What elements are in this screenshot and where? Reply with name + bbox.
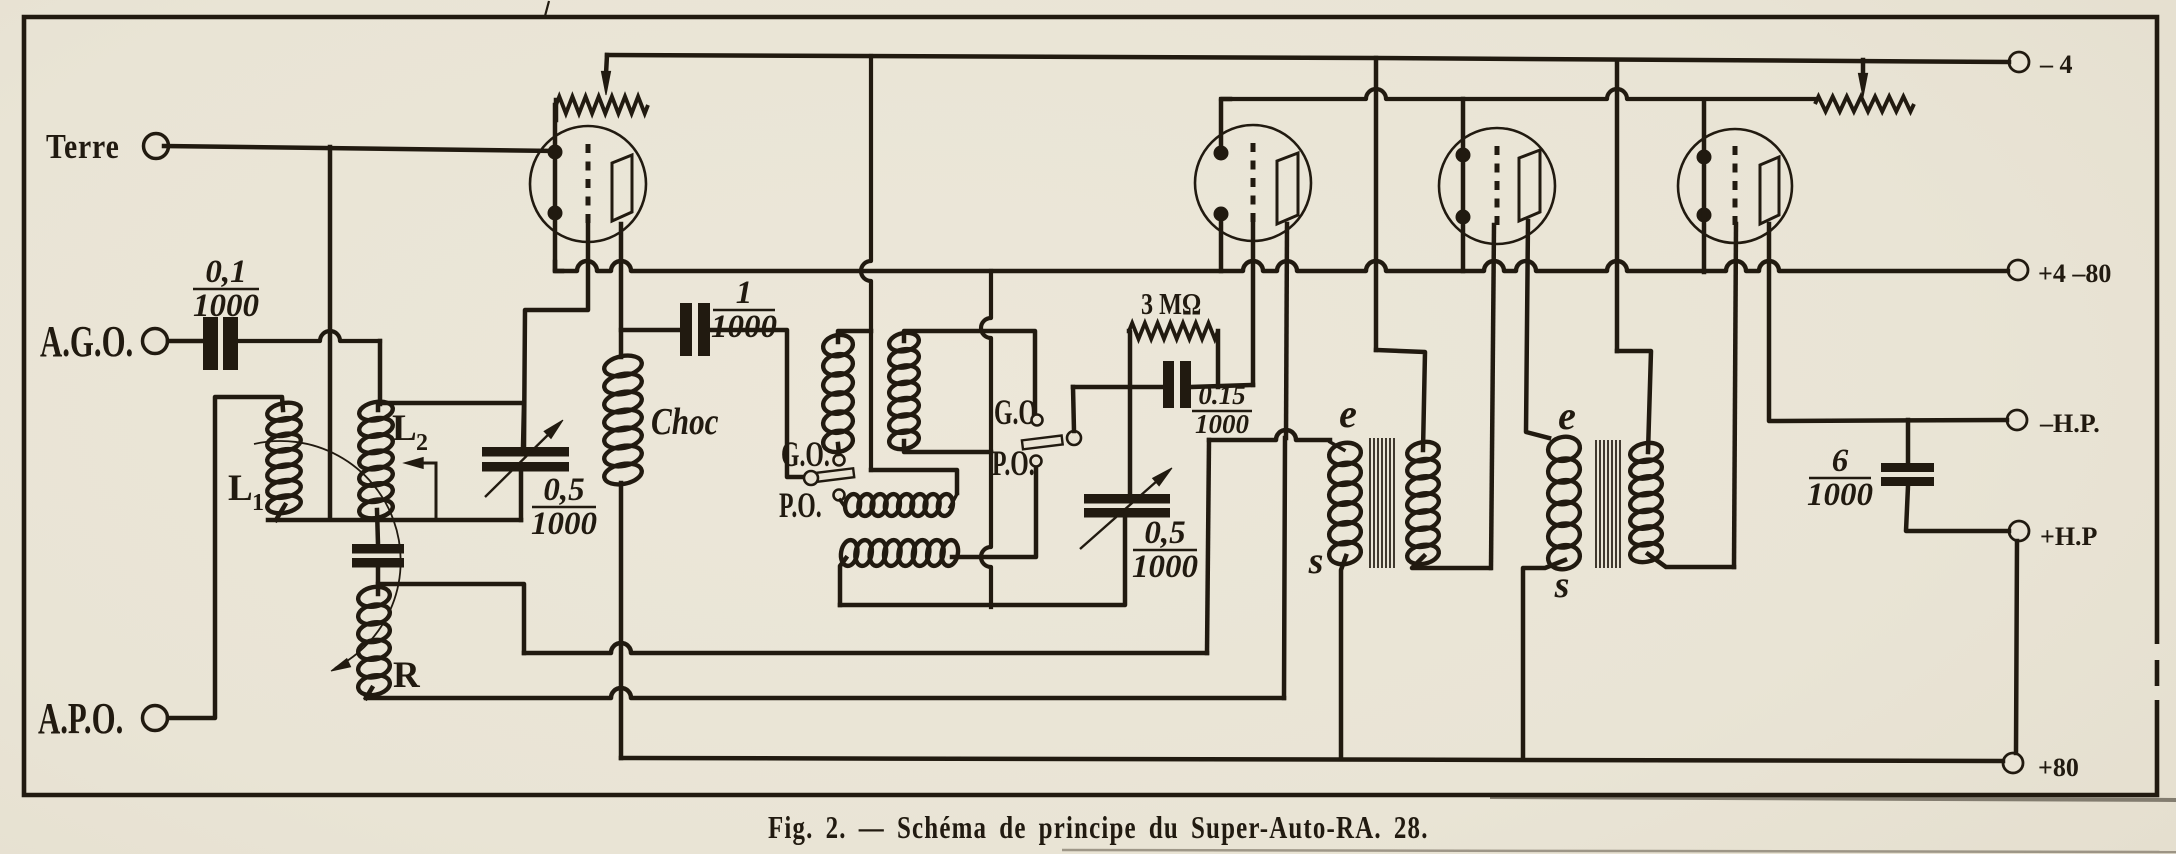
wire V3 grid lead (1491, 225, 1494, 568)
svg-text:1000: 1000 (711, 309, 777, 345)
svg-text:+H.P: +H.P (2040, 522, 2098, 551)
arrowhead pot1 wiper (601, 71, 610, 95)
svg-text:–H.P.: –H.P. (2039, 409, 2100, 438)
wire spiral C left lead (840, 558, 846, 605)
wire L2 bottom lead (377, 510, 378, 544)
svg-text:L: L (228, 468, 253, 509)
wire -4 top rail (607, 55, 2009, 62)
caption (768, 810, 1429, 846)
svg-text:A.P.O.: A.P.O. (38, 695, 123, 744)
label P.O. switch1 (779, 485, 822, 525)
label CV1 value 0,5/1000 (531, 472, 597, 542)
wire switch2 pivot riser (1073, 387, 1074, 431)
wire osc-B top tee (838, 331, 871, 342)
inductor L1 (266, 400, 303, 516)
svg-text:Terre: Terre (46, 128, 120, 167)
svg-text:+4 –80: +4 –80 (2038, 259, 2111, 288)
svg-text:1000: 1000 (1195, 409, 1250, 439)
label -4 (2039, 50, 2073, 79)
contact P.O.1 (834, 490, 845, 501)
svg-text:0,5: 0,5 (543, 472, 584, 508)
label A.G.O. (40, 318, 133, 367)
label A.P.O. (38, 695, 123, 744)
terminal +4-80 (2008, 260, 2028, 280)
label C4 value 0.15/1000 (1192, 380, 1252, 439)
inductor spiral A (843, 493, 954, 517)
wire A.P.O. riser (168, 397, 283, 718)
wire C2 to R junction (376, 567, 381, 594)
wire V2 anode lead (1286, 224, 1287, 438)
switch2 pivot (1067, 431, 1081, 445)
switch1 blade (815, 468, 854, 482)
wire spiral C right lead (952, 467, 1036, 557)
resistor 3MOhm (1129, 323, 1218, 339)
wire +H.P. to +80 (2016, 541, 2017, 753)
inductor T1 primary (1327, 440, 1363, 567)
wire T2 secondary bottom to V4 grid (1648, 554, 1734, 567)
wire rail3 +80 (621, 758, 2003, 761)
capacitor C2 plates (352, 544, 404, 568)
wire osc-D bottom tee (904, 441, 991, 452)
svg-text:1: 1 (252, 490, 264, 516)
terminal Terre (144, 134, 169, 159)
svg-text:1000: 1000 (1132, 549, 1198, 585)
contact G.O.2 (1032, 415, 1043, 426)
inductor L2 (358, 399, 395, 521)
svg-text:P.O.: P.O. (992, 443, 1035, 483)
wire V1 grid lead (524, 222, 588, 447)
coupling arc with arrow (254, 441, 401, 671)
label G.O. switch2 (994, 392, 1043, 432)
inductor osc-D (888, 330, 921, 451)
pen tick top border (545, 1, 549, 16)
wire 3MOhm right lead (1216, 331, 1221, 387)
arrow CV2 variable (1080, 468, 1172, 549)
label G.O. switch1 (781, 434, 830, 474)
wire V3 anode lead (1526, 221, 1549, 438)
svg-text:1000: 1000 (1807, 477, 1873, 513)
capacitor C3 plates (680, 303, 710, 356)
wire gridleak bottom (1073, 385, 1253, 387)
svg-text:2: 2 (416, 430, 428, 456)
wire Terre drop to tank bus (328, 147, 333, 519)
wire pot1 wiper drop (606, 55, 607, 74)
terminal +80 (2003, 753, 2023, 773)
wire 3MOhm left lead (1129, 331, 1130, 494)
wire T2 primary bottom to rail3 (1523, 560, 1565, 759)
inductor T2 primary (1546, 434, 1582, 572)
wire A.G.O. to capacitor (168, 339, 203, 344)
wire T1 primary bottom to rail3 (1341, 556, 1346, 758)
contact P.O.2 (1031, 456, 1042, 467)
svg-text:s: s (1308, 540, 1324, 582)
terminal -4 (2009, 52, 2029, 72)
svg-text:0.15: 0.15 (1198, 380, 1245, 410)
label R (393, 655, 421, 696)
terminal A.G.O. (143, 329, 168, 354)
inductor T1 secondary (1406, 439, 1441, 566)
wire L2 top tee (378, 403, 524, 410)
switch2 blade (1022, 435, 1063, 449)
tube V2 envelope (1195, 125, 1311, 241)
tube V3 envelope (1439, 128, 1555, 244)
svg-text:Fig. 2. — Schéma de principe d: Fig. 2. — Schéma de principe du Super-Au… (768, 810, 1429, 846)
wire osc-D top to G.O.2 (904, 331, 1035, 413)
tube V1 envelope (530, 126, 646, 242)
wire rail1 R-top to T1 primary (378, 430, 1330, 653)
svg-text:1000: 1000 (531, 506, 597, 542)
filament rail (1221, 89, 1815, 99)
inductor spiral C (839, 539, 960, 567)
wire Choc bottom to rail3 (619, 483, 624, 758)
svg-text:+80: +80 (2038, 753, 2079, 782)
svg-text:A.G.O.: A.G.O. (40, 318, 133, 367)
capacitor CV1 plates (482, 447, 569, 472)
capacitor C1 0,1/1000 plates (203, 317, 238, 370)
wire T1 secondary top riser (1376, 350, 1425, 450)
wire V1 anode lead (619, 224, 624, 357)
wire C5 top lead (1906, 420, 1911, 464)
scan smudge bottom (1062, 797, 2176, 852)
label +80 (2038, 753, 2079, 782)
arrow CV1 variable (485, 420, 563, 497)
wire V1 filament to bus corner (555, 262, 562, 271)
svg-text:0,5: 0,5 (1144, 515, 1185, 551)
inductor osc-B (821, 332, 854, 454)
svg-text:R: R (393, 655, 421, 696)
switch1 pivot (804, 471, 818, 485)
label T2 e (1558, 393, 1576, 438)
label +H.P (2040, 522, 2098, 551)
svg-text:Choc: Choc (651, 400, 719, 443)
wire T2 secondary top riser (1617, 351, 1651, 452)
tube V4 envelope (1678, 129, 1792, 243)
wire V4 anode lead (1769, 224, 2007, 421)
wire rail2 R-bottom to V2 anode (366, 438, 1285, 698)
svg-text:1000: 1000 (193, 288, 259, 324)
label Terre (46, 128, 120, 167)
wire tank bottom bus (268, 518, 521, 523)
label T2 s (1554, 564, 1570, 606)
wire CV1 top lead (523, 403, 524, 447)
contact G.O.1 (834, 455, 845, 466)
label T1 s (1308, 540, 1324, 582)
label 3MOhm (1141, 287, 1201, 322)
wire drop x990 (981, 271, 991, 607)
wire V1 filament (553, 105, 558, 270)
label CV2 value 0,5/1000 (1132, 515, 1198, 585)
svg-text:1: 1 (736, 275, 753, 311)
label L1 (228, 468, 264, 516)
wire V3 filament (1461, 99, 1466, 271)
label C3 value 1/1000 (711, 275, 777, 345)
label +4-80 (2038, 259, 2111, 288)
inductor Choc (602, 353, 643, 488)
label C5 value 6/1000 (1807, 443, 1873, 513)
label T1 e (1339, 391, 1357, 436)
wire C1 to L2 top (238, 331, 380, 404)
label C1 value 0,1/1000 (193, 254, 259, 324)
wire V2 grid lead (1251, 222, 1256, 385)
arrowhead pot2 wiper (1858, 73, 1867, 97)
svg-text:e: e (1558, 393, 1576, 438)
coupling tap arrow into L2 (404, 458, 436, 520)
capacitor C5 6/1000 plates (1881, 463, 1934, 486)
wire pot1 left post (554, 100, 559, 120)
svg-text:3 MΩ: 3 MΩ (1141, 287, 1201, 322)
wire C3 to switch1 pivot (709, 330, 804, 477)
wire Choc top to C3 (621, 328, 683, 333)
potentiometer pot1 (556, 97, 648, 114)
svg-text:e: e (1339, 391, 1357, 436)
label P.O. switch2 (992, 443, 1035, 483)
terminal +H.P (2009, 521, 2029, 541)
terminal -H.P. (2007, 410, 2027, 430)
wire V4 grid lead (1734, 224, 1736, 567)
potentiometer pot2 (1815, 97, 1914, 112)
wire Terre to tube1 filament (164, 146, 555, 151)
svg-text:– 4: – 4 (2039, 50, 2073, 79)
label Choc (651, 400, 719, 443)
wire rail607 (840, 518, 1125, 605)
inductor T2 secondary (1629, 440, 1664, 564)
wire CV1 bottom lead (519, 471, 524, 520)
wire L1 bottom to tank bus (276, 505, 285, 520)
wire bias riser x871 (861, 56, 957, 493)
wire bias riser x1617 (1615, 60, 1620, 351)
svg-text:6: 6 (1832, 443, 1849, 479)
bus +4-80 (555, 261, 2008, 271)
svg-text:0,1: 0,1 (205, 254, 246, 290)
wire bias riser x1376 (1374, 58, 1379, 350)
wire spiral A left curl (840, 500, 845, 507)
wire V4 filament (1702, 101, 1707, 272)
capacitor C4 0.15/1000 plates (1163, 361, 1191, 408)
wire V2 filament (1221, 99, 1230, 271)
inductor R (356, 584, 391, 698)
label L2 (392, 408, 428, 456)
transformer T1 core (1370, 438, 1394, 568)
transformer T2 core (1596, 440, 1620, 568)
svg-text:P.O.: P.O. (779, 485, 822, 525)
label -H.P. (2039, 409, 2100, 438)
wire T1 primary top curl (1330, 442, 1344, 450)
svg-text:L: L (392, 408, 417, 449)
wire T1 secondary bottom to V3 grid (1412, 556, 1490, 568)
capacitor CV2 plates (1084, 494, 1170, 518)
wire pot2 wiper drop (1861, 60, 1866, 76)
wire osc-B bottom to G.O.1 (838, 444, 839, 454)
wire C5 bottom to +H.P. (1906, 486, 2009, 531)
wire spiral A right curl (950, 494, 957, 507)
terminal A.P.O. (143, 706, 168, 731)
